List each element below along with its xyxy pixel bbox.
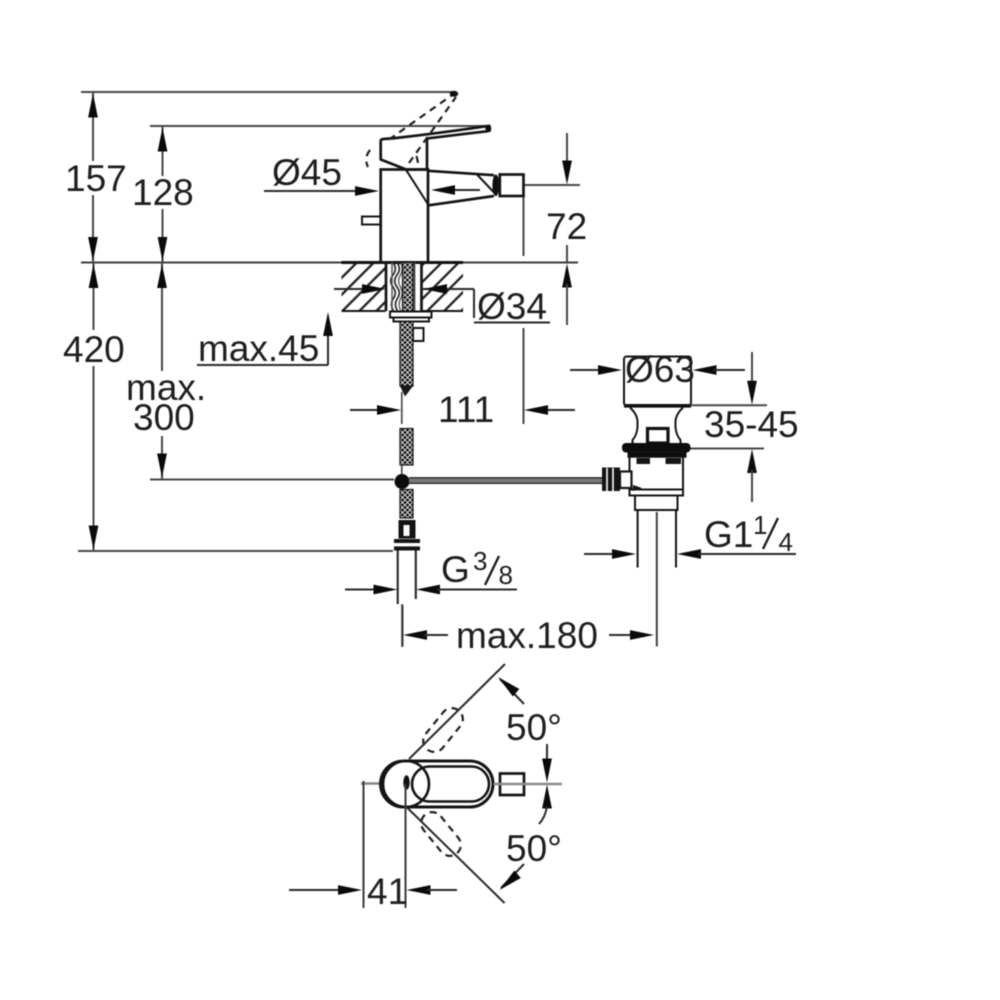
label Ø63 with arrows [570,369,601,371]
supply hose thin line [401,392,403,424]
top view: dashed lever down position [417,808,466,861]
svg-text:max.45: max.45 [198,328,319,369]
drain valve head [624,357,691,406]
node: dim 420 vertical line [93,263,95,331]
supply hose connector nut [399,520,416,539]
wire: 157 top extension line [81,91,456,93]
label Ø34 with arrows [334,288,366,290]
faucet: countertop hatched section right [422,264,464,311]
wire: max300 extension to pop-up rod [150,479,394,481]
svg-text:Ø45: Ø45 [272,152,342,193]
top view: outer body stadium [381,761,494,807]
faucet lever handle raised (dashed) [389,93,455,140]
svg-text:41: 41 [367,871,408,912]
drain valve neck [630,408,638,444]
svg-text:Ø63: Ø63 [625,349,695,390]
supply hose threaded piece 3 [400,490,413,519]
wire: 420 lower extension line [78,550,393,552]
dim 111 [350,409,381,411]
faucet side nub [362,217,381,225]
shank washer and nut below counter [390,312,432,318]
drain flange (seat) [622,443,691,453]
svg-text:G: G [441,549,470,590]
drain plug guide square [648,429,669,444]
pop-up rod junction dot [395,474,410,489]
svg-text:72: 72 [546,206,587,247]
drain locknut [635,496,678,511]
shank threaded rod below [400,322,413,387]
wire: 128 extension line [150,125,489,127]
dim 50 deg upper: radial line [409,664,505,759]
drain centerline [656,512,658,647]
shank pop-up rod guide nub [413,328,424,341]
shank cable squiggles in hole [391,263,396,311]
top view: pop-up rod hole dot [403,775,409,789]
dim 50 deg upper: arc end at centerline [546,744,548,760]
supply hose tube [397,551,399,605]
svg-text:35-45: 35-45 [704,404,799,445]
svg-text:128: 128 [132,172,194,213]
svg-text:3: 3 [473,546,487,576]
dim 50 deg lower: radial line [407,808,505,904]
faucet lever handle solid [381,126,490,170]
drain valve body [630,452,684,496]
svg-text:G1: G1 [704,514,753,555]
svg-text:420: 420 [63,329,125,370]
dim 50 deg lower: arc end at centerline [542,785,552,809]
node: dim 128 vertical line [162,126,164,176]
faucet: mounting hole walls [385,263,388,312]
top view: centerline right [494,783,563,786]
node: dim max300 vertical line [161,263,163,372]
top view: aerator square [500,774,524,796]
wire: aerator projection line down [523,196,525,256]
shank threaded rod in hole [403,263,414,312]
drain tailpipe G1 1/4 [637,510,639,568]
svg-text:Ø34: Ø34 [477,286,547,327]
pop-up rod horizontal to drain [409,478,602,484]
faucet: countertop hatched section left [342,264,386,311]
svg-text:157: 157 [65,158,127,199]
top view: dashed lever up position [419,704,468,757]
dim 72 vertical [524,184,581,186]
svg-text:50°: 50° [506,828,562,869]
node: dim 157 vertical line [92,92,94,161]
svg-text:max.180: max.180 [456,615,598,656]
svg-text:4: 4 [779,527,793,557]
label G3/8 [345,589,377,591]
dim 41 [363,781,365,908]
faucet body [381,170,428,263]
label G1 1/4 [584,553,615,555]
dim max.180 [402,605,404,647]
svg-text:50°: 50° [506,707,562,748]
drain rod clamp [602,468,620,492]
faucet spout cone [428,171,494,175]
faucet aerator [500,175,524,197]
supply hose threaded piece 2 [400,429,413,466]
top view: base circle [383,761,429,807]
dim 35-45 [691,404,768,406]
svg-text:300: 300 [133,397,195,438]
svg-text:111: 111 [438,389,494,430]
top view: centerline left tick [361,782,381,785]
wire: mounting surface line [81,261,578,263]
top view: inner spout stadium [412,767,489,802]
svg-text:1: 1 [753,510,767,540]
svg-text:8: 8 [499,560,513,590]
supply hose centerline below [401,604,403,647]
